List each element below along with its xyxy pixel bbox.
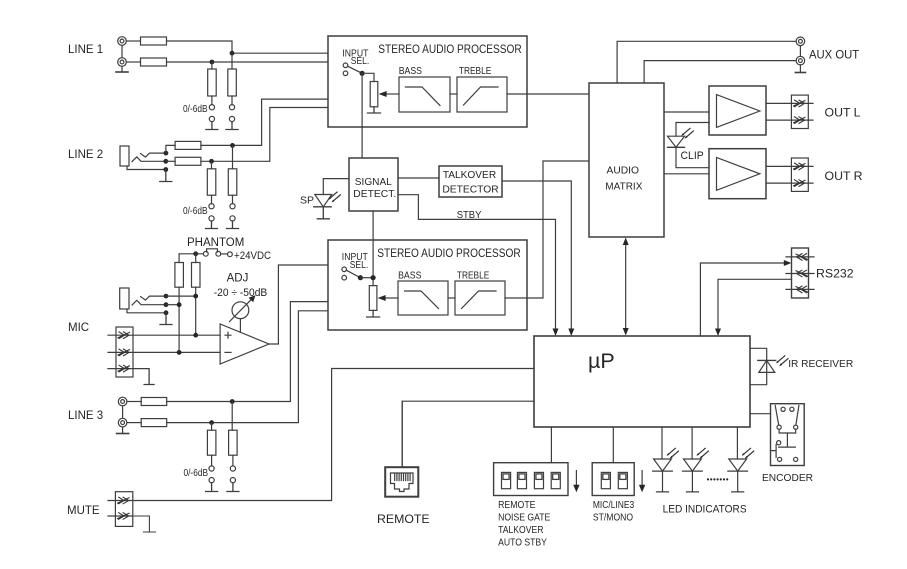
node bus arrow down (623, 328, 629, 336)
wire LINE2 R shunt drop (211, 161, 213, 169)
svg-text:SEL.: SEL. (351, 56, 370, 67)
svg-text:DETECTOR: DETECTOR (442, 183, 499, 195)
wire MIC tip to R10 column (166, 295, 196, 297)
node D1 flash (667, 448, 679, 458)
wire MIC minus line (133, 351, 220, 353)
wire phantom feed (179, 253, 203, 255)
wire MUTE stubs (108, 501, 133, 517)
node D3 flash (742, 448, 754, 458)
connector J11 XLR OUT L (791, 95, 808, 128)
jumper 0/-6dB LINE2 a (209, 204, 214, 221)
resistor R3 (208, 69, 217, 96)
wire LINE2 tip contact (141, 153, 166, 157)
resistor R12 (141, 419, 167, 427)
node U2 INPUT SEL label (342, 48, 369, 67)
svg-text:PHANTOM: PHANTOM (187, 237, 244, 249)
svg-text:LINE 3: LINE 3 (68, 410, 103, 422)
amplifier A1 box (709, 86, 766, 135)
led IR receiver (758, 360, 776, 372)
wire LINE2 L out (201, 99, 328, 145)
connector J6 RCA LINE3 L (118, 397, 127, 406)
wire U5 to matrix (505, 161, 589, 298)
svg-text:NOISE GATE: NOISE GATE (498, 513, 550, 524)
jumper 0/-6dB LINE3 b (230, 466, 235, 483)
wire LINE3 R to R12 (127, 422, 141, 424)
svg-text:BASS: BASS (398, 270, 421, 282)
node dot MIC sleeve (164, 310, 169, 315)
wire uP to dip2 (612, 427, 614, 463)
node XLR arrow 2 (118, 349, 130, 356)
svg-text:ST/MONO: ST/MONO (593, 513, 633, 524)
wire MIC tip contact (141, 296, 166, 300)
svg-text:AUDIO: AUDIO (607, 165, 640, 177)
wire BASS to VR1 arrow (379, 91, 399, 97)
wire uP to led2 (691, 427, 693, 459)
svg-text:BASS: BASS (399, 65, 422, 77)
node U3 label (353, 176, 396, 200)
wire MIC ring contact (132, 300, 166, 305)
wire A1 outputs (766, 103, 813, 120)
node junction LINE2 R (209, 159, 214, 164)
wire MIC pin3 (133, 369, 154, 385)
connector J4 jack MIC (120, 288, 129, 309)
wire LINE3 R shunt drop (211, 423, 213, 431)
wire MIC ring to R9 column (166, 304, 179, 306)
svg-text:SEL.: SEL. (350, 260, 369, 271)
node MUTE arrow 2 (118, 513, 130, 520)
wire U3 to SP led (323, 179, 349, 195)
wire clip tap upper (676, 123, 709, 137)
wire LINE1 R out (167, 61, 329, 63)
ground LINE1 jumper b (226, 122, 238, 130)
wire phantom right drop (195, 254, 197, 263)
signal detect U3 box (349, 158, 398, 211)
talkover detector U4 box (439, 166, 502, 197)
svg-text:MIC/LINE3: MIC/LINE3 (593, 500, 635, 511)
encoder S4 box (771, 404, 805, 466)
ground MIC sleeve (160, 313, 172, 325)
wire uP to remote jack (401, 401, 403, 467)
wire signal detect to U5 junction (372, 211, 374, 286)
svg-text:CLIP: CLIP (681, 150, 704, 162)
svg-text:0/-6dB: 0/-6dB (183, 103, 208, 115)
switch S2 input select (343, 63, 362, 76)
node STBY arrow into uP (553, 329, 559, 337)
jumper 0/-6dB LINE1 b (229, 105, 234, 122)
dip switch S6 elements (601, 472, 627, 488)
node junction LINE1 L (230, 51, 235, 56)
wire aux out L (617, 41, 796, 83)
resistor R5 (175, 141, 201, 149)
wire LINE2 ring to R6 (166, 160, 175, 162)
connector J9 RCA AUX L (796, 37, 805, 46)
jumper 0/-6dB LINE2 b (230, 204, 235, 221)
wire LINE2 R out (201, 108, 328, 162)
microprocessor U7 box (534, 336, 750, 427)
ground LINE3 jumper a (206, 483, 218, 492)
wire LINE2 tip up to R5 (166, 145, 175, 153)
svg-text:MIC: MIC (68, 322, 89, 334)
node CLIP led flash (681, 128, 693, 138)
treble filter U5 box (455, 281, 505, 315)
resistor R1 (141, 37, 167, 45)
wire R10 down (195, 287, 197, 335)
node J11 arrow 1 (794, 100, 806, 107)
svg-text:STBY: STBY (457, 209, 482, 221)
node junction LINE2 L (230, 143, 235, 148)
node junction phantom (193, 251, 198, 256)
node dot MIC ring (164, 302, 169, 307)
wire RS232 stubs (786, 257, 814, 290)
svg-text:µP: µP (588, 349, 615, 373)
wire LINE1 R shunt drop (211, 62, 213, 69)
wire S2 to pot (362, 73, 374, 81)
svg-text:TALKOVER: TALKOVER (498, 525, 543, 536)
switch S1 phantom +24VDC (203, 249, 232, 257)
node RS232 arrow 3 (796, 286, 808, 293)
wire LINE1 R4 to jumper (231, 96, 233, 105)
node U5 junction dot (371, 275, 376, 280)
node J12 arrow 1 (794, 163, 806, 170)
resistor R4 (228, 69, 237, 96)
svg-text:RS232: RS232 (816, 267, 854, 281)
svg-text:REMOTE: REMOTE (498, 500, 536, 511)
resistor R13 (207, 430, 216, 455)
potentiometer VR2 (369, 286, 377, 311)
led D2 (683, 459, 703, 492)
node dot MIC tip (164, 294, 169, 299)
wire RS232 rx to uP (718, 279, 792, 333)
wire uP to led1 (661, 427, 663, 459)
wire LINE3 L to R11 (127, 401, 141, 403)
wire AUX RCA link (799, 46, 801, 72)
led D3 (728, 459, 748, 492)
node IR flash (776, 356, 788, 366)
wire R14 to jumper (232, 455, 234, 466)
connector J3 jack LINE2 (120, 146, 129, 166)
audio matrix U6 box (589, 83, 664, 237)
node U4 label (442, 169, 499, 195)
connector J13 RS232 (792, 248, 809, 298)
svg-text:STEREO AUDIO PROCESSOR: STEREO AUDIO PROCESSOR (377, 248, 521, 260)
svg-text:DETECT.: DETECT. (353, 188, 396, 200)
node RS232 arrow 1 (796, 254, 808, 261)
svg-text:TREBLE: TREBLE (459, 65, 491, 77)
resistor R10 (192, 263, 201, 288)
wire uP to encoder (750, 413, 771, 415)
wire matrix to amp R (664, 173, 709, 175)
svg-text:LINE 1: LINE 1 (68, 44, 103, 56)
ground LINE2 jumper b (227, 221, 239, 229)
svg-text:ADJ: ADJ (227, 273, 249, 285)
wire op-amp output (269, 265, 328, 344)
svg-text:AUX OUT: AUX OUT (809, 48, 860, 62)
node junction LINE3 L (230, 399, 235, 404)
encoder S4 push switch (771, 441, 798, 462)
wire LINE2 R7 to jumper (211, 195, 213, 203)
wire LINE3 L out (167, 302, 328, 402)
wire LINE1 R3 to jumper (211, 96, 213, 105)
dip switch S6 box (592, 463, 634, 496)
connector J5 XLR MIC (116, 327, 133, 377)
node dot LINE2 ring (163, 159, 168, 164)
svg-text:-20 ÷ -50dB: -20 ÷ -50dB (214, 287, 268, 299)
node RS232 arrow 2 (796, 270, 808, 277)
svg-text:REMOTE: REMOTE (377, 512, 430, 526)
wire clip tap lower (676, 147, 709, 167)
wire aux out R (644, 61, 796, 83)
resistor R9 (175, 263, 184, 288)
wire LINE3 R out (167, 311, 328, 423)
resistor R14 (229, 430, 238, 455)
wire XLR stubs (108, 335, 133, 368)
svg-text:+24VDC: +24VDC (234, 250, 271, 262)
svg-text:0/-6dB: 0/-6dB (184, 467, 209, 479)
ground LINE1 jumper a (206, 122, 218, 130)
svg-text:0/-6dB: 0/-6dB (183, 205, 208, 217)
jumper 0/-6dB LINE3 a (209, 466, 214, 483)
node junction tip R10 (193, 294, 198, 299)
treble filter U2 box (457, 77, 507, 112)
node junction plus (193, 333, 198, 338)
svg-text:MATRIX: MATRIX (605, 181, 642, 193)
bass filter U5 box (398, 281, 448, 315)
wire LINE1 L out (167, 41, 329, 53)
node U4 arrow into uP (568, 329, 574, 337)
node treble curve U2 (464, 87, 499, 105)
amplifier A2 triangle (717, 158, 760, 191)
potentiometer ADJ (230, 295, 256, 332)
ground LINE2 jumper a (206, 221, 218, 229)
svg-text:OUT L: OUT L (825, 106, 861, 120)
node junction ring R9 (177, 302, 182, 307)
node bass curve U5 (405, 291, 439, 309)
node dip1 arrow (573, 471, 579, 493)
node XLR arrow 3 (118, 365, 130, 372)
svg-text:SP: SP (300, 195, 314, 207)
svg-text:STEREO AUDIO PROCESSOR: STEREO AUDIO PROCESSOR (378, 44, 522, 56)
node dip2 arrow (639, 471, 645, 493)
connector J12 XLR OUT R (791, 158, 808, 191)
wire MUTE to uP (133, 369, 534, 501)
connector J7 RCA LINE3 R (118, 418, 127, 427)
node led dots (707, 478, 728, 480)
svg-text:ENCODER: ENCODER (762, 473, 813, 484)
wire matrix to amp L (664, 111, 709, 113)
wire S2 to signal detect (361, 73, 363, 158)
ground VR2 (367, 310, 380, 317)
svg-text:SIGNAL: SIGNAL (355, 176, 392, 188)
wire uP to led3 (736, 427, 738, 459)
node MUTE arrow 1 (118, 497, 130, 504)
wire LINE3 L shunt drop (231, 402, 233, 431)
wire uP to IR bracket (750, 348, 767, 384)
bass filter U2 box (399, 77, 450, 112)
led CLIP (668, 136, 685, 147)
resistor R7 (207, 169, 216, 195)
connector J2 RCA LINE1 R (118, 58, 127, 67)
svg-text:MUTE: MUTE (67, 505, 100, 517)
wire LINE2 ring contact (132, 157, 166, 162)
node dot LINE2 sleeve (163, 167, 168, 172)
node D2 flash (696, 448, 708, 458)
svg-text:LINE 2: LINE 2 (68, 149, 103, 161)
wire S3 to junction (360, 277, 373, 279)
stereo audio processor U2 box (328, 36, 527, 127)
wire BASS to VR2 arrow (378, 295, 398, 301)
node J11 arrow 2 (794, 117, 806, 124)
node junction LINE3 R (209, 420, 214, 425)
wire bass-treble link U5 (448, 297, 455, 299)
svg-text:OUT R: OUT R (825, 169, 863, 183)
wire R9 down (178, 287, 180, 352)
svg-text:TREBLE: TREBLE (457, 270, 489, 282)
node S2 common dot (360, 71, 365, 76)
connector J1 RCA LINE1 L (118, 37, 127, 46)
node XLR arrow 1 (118, 332, 130, 339)
ground LINE3 jumper b (227, 483, 239, 492)
wire R13 to jumper (211, 455, 213, 466)
node rx arrow into uP (715, 329, 721, 337)
stereo audio processor U5 box (328, 240, 527, 330)
amplifier A1 triangle (717, 95, 760, 128)
wire LINE1 L shunt drop (231, 53, 233, 69)
wire LINE1 L to R1 (126, 40, 140, 42)
node U5 INPUT SEL label (342, 252, 368, 271)
potentiometer VR1 (370, 82, 378, 107)
jumper 0/-6dB LINE1 a (209, 105, 214, 122)
wire phantom left drop (178, 254, 180, 263)
resistor R2 (141, 58, 167, 66)
led SP (314, 195, 332, 219)
ground LINE3 RCA (117, 433, 129, 435)
ground LINE1 RCA (116, 71, 128, 73)
wire MIC plus line (133, 334, 220, 336)
wire LINE1 RCA link (121, 45, 123, 71)
node treble curve U5 (462, 291, 497, 309)
wire uP remote input (402, 401, 534, 467)
wire A2 outputs (766, 166, 813, 183)
node junction LINE1 R (210, 60, 215, 65)
connector J10 RCA AUX R (796, 56, 805, 65)
node junction minus (177, 350, 182, 355)
svg-text:LED INDICATORS: LED INDICATORS (663, 504, 747, 516)
node dot LINE2 tip (164, 151, 169, 156)
wire uP to RS232 tx (700, 263, 785, 336)
wire MIC sleeve (127, 309, 166, 313)
wire U3 to talkover (398, 177, 439, 179)
svg-text:AUTO STBY: AUTO STBY (498, 537, 547, 548)
node bus arrow up (623, 238, 629, 246)
wire LINE3 RCA link (122, 406, 124, 433)
resistor R11 (141, 398, 167, 406)
resistor R6 (175, 157, 201, 165)
node dip2 labels (593, 500, 635, 524)
svg-text:TALKOVER: TALKOVER (443, 169, 497, 181)
ground VR1 (368, 107, 381, 113)
node tx arrow into RS232 (784, 260, 792, 266)
wire U4 out to uP (502, 181, 571, 333)
node J12 arrow 2 (794, 180, 806, 187)
wire bass-treble link U2 (450, 93, 457, 95)
wire LINE2 sleeve (127, 166, 166, 170)
node dip1 labels (498, 500, 550, 548)
wire MUTE pin2 ground (133, 516, 156, 532)
ground AUX (795, 72, 805, 74)
wire uP to dip1 (550, 427, 552, 463)
switch S3 input select (342, 267, 360, 280)
resistor R8 (228, 169, 237, 195)
led D1 (653, 459, 673, 492)
node SP led flash (328, 192, 340, 202)
encoder S4 contacts (775, 406, 799, 448)
wire LINE2 R8 to jumper (232, 195, 234, 203)
op-amp U1 (220, 324, 269, 364)
dip switch S5 box (494, 463, 568, 496)
svg-text:IR RECEIVER: IR RECEIVER (788, 359, 853, 370)
ground LINE2 sleeve (160, 170, 172, 182)
node bass curve U2 (406, 87, 441, 106)
node U6 label (605, 165, 642, 193)
node plus sign (225, 332, 231, 338)
amplifier A2 box (709, 149, 766, 199)
wire LINE1 R to R2 (126, 61, 140, 63)
wire matrix-uP bus (625, 241, 627, 333)
wire U2 to matrix (507, 93, 589, 95)
node S3 common dot (358, 275, 363, 280)
node minus sign (225, 351, 231, 353)
connector J14 RJ45 REMOTE (385, 467, 418, 497)
connector J8 MUTE (115, 492, 132, 527)
wire U3 stby out (398, 195, 556, 333)
wire LINE2 L shunt drop (232, 145, 234, 168)
dip switch S5 elements (502, 472, 561, 488)
